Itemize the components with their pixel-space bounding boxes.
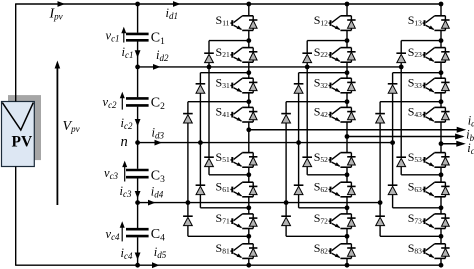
IGBT switch S22 with antiparallel diode <box>314 45 356 62</box>
PV panel shadow <box>8 95 41 160</box>
capacitor C4 <box>126 227 165 243</box>
junction DC bus / bottom rail <box>135 263 140 268</box>
PV panel <box>2 102 35 167</box>
current arrow I_pv <box>49 1 66 22</box>
IGBT switch S21 with antiparallel diode <box>216 45 258 62</box>
wire PV bottom to bottom rail <box>15 167 17 266</box>
voltage arrow v_c4 <box>106 221 125 242</box>
clamp diode leg3 upper A (P1 to V1 tap) <box>396 41 441 67</box>
clamp diode leg1 lower C (V3 tap to P7) <box>183 203 249 237</box>
net i_d2 rail (C1-C2 tap) <box>138 48 402 70</box>
clamp diode leg2 lower C (V3 tap to P7) <box>281 203 347 237</box>
wire leg 3 vertical <box>440 4 442 265</box>
clamp diode leg2 lower B (n to P6) <box>294 143 347 208</box>
clamp diode leg1 lower B (n to P6) <box>196 143 249 208</box>
phase line i_c <box>441 141 474 157</box>
IGBT switch S51 with antiparallel diode <box>216 150 258 167</box>
current arrow i_c3 <box>120 184 141 199</box>
wire DC bus <box>137 4 139 265</box>
wire left vertical (PV top to rail) <box>15 4 17 102</box>
IGBT switch S63 with antiparallel diode <box>408 179 450 196</box>
IGBT switch S62 with antiparallel diode <box>314 179 356 196</box>
voltage arrow v_c2 <box>103 92 125 111</box>
current arrow i_d5 (bottom rail) <box>152 245 167 268</box>
IGBT switch S72 with antiparallel diode <box>314 211 356 228</box>
phase line i_b <box>347 128 474 143</box>
IGBT switch S23 with antiparallel diode <box>408 45 450 62</box>
clamp diode leg1 upper A (P1 to V1 tap) <box>204 41 249 67</box>
IGBT switch S31 with antiparallel diode <box>216 75 258 92</box>
IGBT switch S43 with antiparallel diode <box>408 105 450 122</box>
junction dots leg 2 <box>284 2 350 268</box>
IGBT switch S13 with antiparallel diode <box>408 13 450 30</box>
junction DC bus / n rail <box>135 140 140 145</box>
current arrow i_c1 <box>122 45 141 60</box>
clamp diode leg3 upper B (P2 to n) <box>388 73 441 143</box>
IGBT switch S11 with antiparallel diode <box>216 13 258 30</box>
IGBT switch S42 with antiparallel diode <box>314 105 356 122</box>
junction DC bus / i_d2 rail <box>135 65 140 70</box>
phase line i_a <box>249 113 474 133</box>
junction DC bus / i_d4 rail <box>135 200 140 205</box>
wire bottom rail <box>15 264 441 266</box>
clamp diode leg3 lower B (n to P6) <box>388 143 441 208</box>
clamp diode leg3 lower C (V3 tap to P7) <box>375 203 441 237</box>
IGBT switch S32 with antiparallel diode <box>314 75 356 92</box>
clamp diode leg2 lower A (V1 tap to P5) <box>302 67 347 175</box>
capacitor C3 <box>126 169 165 185</box>
svg-text:PV: PV <box>12 133 33 150</box>
voltage arrow v_c1 <box>106 27 127 44</box>
IGBT switch S82 with antiparallel diode <box>314 241 356 258</box>
IGBT switch S33 with antiparallel diode <box>408 75 450 92</box>
IGBT switch S81 with antiparallel diode <box>216 241 258 258</box>
clamp diode leg2 upper C (P3 to V3 tap) <box>281 102 347 203</box>
IGBT switch S53 with antiparallel diode <box>408 150 450 167</box>
clamp diode leg1 upper B (P2 to n) <box>196 73 249 143</box>
capacitor C2 <box>126 96 165 112</box>
current arrow i_c4 <box>121 246 141 261</box>
junction DC bus / top rail <box>135 2 140 7</box>
node n / net n rail (C2-C3 tap) <box>121 125 393 150</box>
IGBT switch S12 with antiparallel diode <box>314 13 356 30</box>
clamp diode leg1 lower A (V1 tap to P5) <box>204 67 249 175</box>
net i_d4 rail (C3-C4 tap) <box>138 185 381 206</box>
clamp diode leg3 upper C (P3 to V3 tap) <box>375 102 441 203</box>
junction dots leg 1 <box>186 2 252 268</box>
clamp diode leg2 upper A (P1 to V1 tap) <box>302 41 347 67</box>
voltage arrow v_c3 <box>104 161 127 182</box>
wire leg 2 vertical <box>346 4 348 265</box>
wire top rail <box>15 3 441 5</box>
IGBT switch S71 with antiparallel diode <box>216 211 258 228</box>
IGBT switch S52 with antiparallel diode <box>314 150 356 167</box>
wire leg 1 vertical <box>248 4 250 265</box>
junction dots leg 3 <box>378 2 444 268</box>
capacitor C1 <box>126 31 165 47</box>
voltage arrow V_pv <box>55 61 80 206</box>
clamp diode leg3 lower A (V1 tap to P5) <box>396 67 441 175</box>
clamp diode leg1 upper C (P3 to V3 tap) <box>183 102 249 203</box>
current arrow i_c2 <box>121 116 141 131</box>
current arrow i_d1 (top rail) <box>166 1 181 21</box>
svg-text:n: n <box>121 134 128 150</box>
IGBT switch S83 with antiparallel diode <box>408 241 450 258</box>
IGBT switch S41 with antiparallel diode <box>216 105 258 122</box>
IGBT switch S73 with antiparallel diode <box>408 211 450 228</box>
clamp diode leg2 upper B (P2 to n) <box>294 73 347 143</box>
IGBT switch S61 with antiparallel diode <box>216 179 258 196</box>
